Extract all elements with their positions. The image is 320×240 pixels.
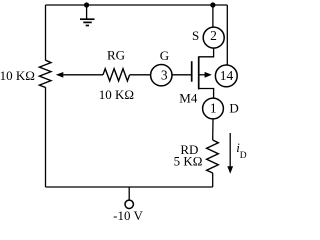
svg-text:S: S [192,28,199,43]
wire resistor RG to node 3 [130,74,151,76]
wire M4 drain to node 1 [199,89,214,99]
potentiometer wiper wire [62,74,103,76]
terminal -10 V open circle [125,200,133,208]
wire stub to -10 V terminal [128,187,130,200]
ground [80,5,95,26]
transistor M4 channel bar [198,56,200,89]
svg-text:D: D [240,151,247,161]
potentiometer body [39,60,51,87]
wire right vertical from top wire down to node 14 [226,5,228,65]
wire left vertical lower [45,87,47,187]
svg-text:G: G [160,48,169,63]
svg-text:M4: M4 [179,91,198,106]
svg-text:1: 1 [210,101,217,116]
wire bottom horizontal [46,186,213,188]
svg-text:5 KΩ: 5 KΩ [174,153,203,168]
node 1 circle [203,98,224,119]
svg-text:14: 14 [220,68,234,83]
current arrow iD arrowhead [227,166,233,174]
wire top horizontal [46,4,228,6]
resistor RG [103,69,130,81]
svg-text:-10 V: -10 V [113,208,143,223]
wire resistor RD to bottom wire [212,173,214,187]
current arrow iD line [229,133,231,167]
wire left vertical upper [45,5,47,61]
resistor RD [207,140,219,173]
wire node 2 to M4 source [199,48,214,57]
svg-text:10 KΩ: 10 KΩ [0,68,35,83]
node 3 circle [151,65,172,86]
svg-text:10 KΩ: 10 KΩ [99,87,134,102]
wire node 3 to M4 gate [172,74,192,76]
node 2 circle [203,27,224,48]
node 14 circle [215,65,237,87]
svg-text:D: D [229,101,238,116]
svg-text:2: 2 [210,28,217,43]
transistor M4 gate bar [191,61,193,81]
wire node 1 to resistor RD [212,119,214,140]
svg-text:3: 3 [161,67,168,82]
junction top wire to node 2 branch [210,2,215,7]
transistor M4 body wire [199,74,206,76]
transistor M4 body arrowhead [205,72,212,78]
junction ground to top wire [84,2,89,7]
potentiometer wiper arrowhead [56,72,64,78]
svg-text:RG: RG [107,48,125,63]
wire from top junction down to node 2 [212,5,214,27]
